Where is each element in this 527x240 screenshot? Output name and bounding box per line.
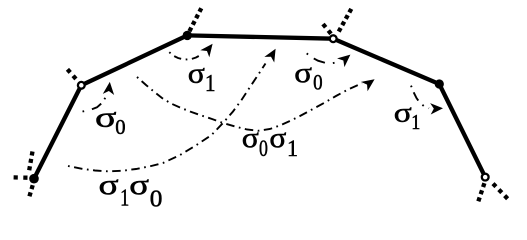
svg-text:σ: σ xyxy=(269,121,286,153)
label sigma_0 near V4 xyxy=(294,56,322,95)
node V2 open xyxy=(78,82,85,89)
label sigma_0 near V2 xyxy=(95,101,126,139)
node V4 open xyxy=(330,35,337,42)
svg-text:1: 1 xyxy=(205,70,216,96)
svg-text:σ: σ xyxy=(394,97,412,127)
label sigma_1 near V3 xyxy=(188,57,216,96)
wire polyline main xyxy=(34,35,485,178)
svg-text:1: 1 xyxy=(287,135,298,161)
dotted ray down-right at V6 xyxy=(493,184,510,202)
svg-text:σ: σ xyxy=(99,169,119,201)
svg-text:0: 0 xyxy=(150,186,163,212)
svg-text:σ: σ xyxy=(188,57,205,89)
svg-text:σ: σ xyxy=(242,121,259,153)
node V1 filled xyxy=(29,174,39,184)
label sigma_0 sigma_1 middle xyxy=(242,121,298,161)
label sigma_1 near V5 xyxy=(394,97,421,134)
svg-text:0: 0 xyxy=(313,69,322,95)
dotted ray left at V1 xyxy=(13,175,28,180)
dotted ray down at V1 xyxy=(29,185,33,198)
svg-text:σ: σ xyxy=(95,101,117,133)
dotted ray up at V1 xyxy=(29,151,32,171)
dotted ray up-left at V4 xyxy=(321,22,331,34)
arrow sigma0 at V2 xyxy=(83,81,116,111)
dotted ray down at V6 xyxy=(478,183,485,203)
svg-text:σ: σ xyxy=(129,169,149,201)
node V5 filled xyxy=(435,79,444,88)
svg-text:0: 0 xyxy=(259,137,268,162)
svg-text:0: 0 xyxy=(115,115,125,139)
node V3 filled xyxy=(183,31,192,40)
arrow sigma0 at V4 xyxy=(307,50,354,67)
arrow sigma1 at V5 xyxy=(411,86,443,115)
svg-text:σ: σ xyxy=(294,56,312,89)
node V6 open xyxy=(482,174,489,181)
dotted ray up-left at V2 xyxy=(65,66,76,79)
svg-text:1: 1 xyxy=(120,184,129,211)
dotted ray up-right at V4 xyxy=(339,8,352,32)
svg-text:1: 1 xyxy=(411,110,420,134)
arrow sigma1 sigma0 long xyxy=(68,46,281,171)
arrow sigma1 at V3 xyxy=(169,40,217,59)
label sigma_1 sigma_0 lower-left xyxy=(99,169,163,212)
arrow sigma0 sigma1 long xyxy=(137,75,378,131)
dotted ray up-right at V3 xyxy=(189,8,201,31)
